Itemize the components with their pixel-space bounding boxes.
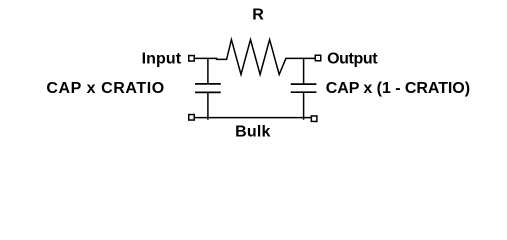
svg-text:R: R (252, 6, 264, 23)
svg-text:Input: Input (142, 51, 182, 68)
svg-text:Bulk: Bulk (235, 124, 270, 141)
svg-text:Output: Output (327, 51, 378, 68)
svg-text:CAP x CRATIO: CAP x CRATIO (46, 80, 164, 97)
svg-text:CAP x (1 - CRATIO): CAP x (1 - CRATIO) (326, 80, 470, 97)
